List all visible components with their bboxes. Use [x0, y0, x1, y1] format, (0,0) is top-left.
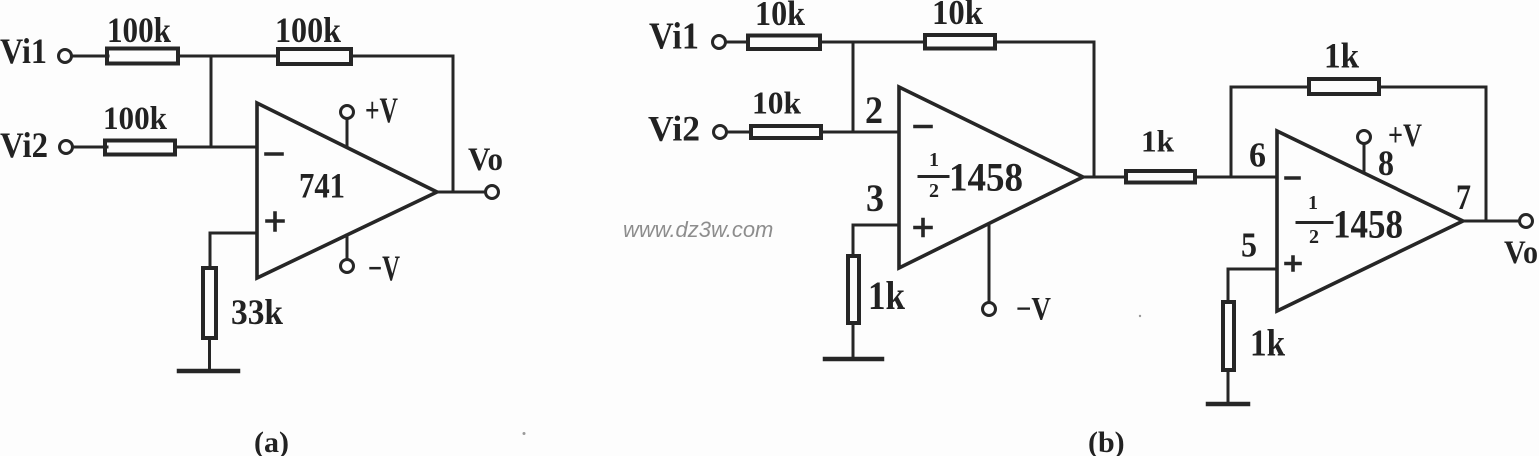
ground (b1) — [825, 357, 882, 362]
resistor R10 1k body — [1309, 79, 1379, 94]
ground (a) — [179, 369, 238, 374]
svg-text:1k: 1k — [1141, 124, 1175, 159]
wire R1 to node A — [180, 55, 278, 58]
terminal Vi1 (a) — [59, 50, 72, 63]
svg-text:1k: 1k — [1250, 323, 1286, 365]
svg-text:2: 2 — [865, 89, 883, 132]
wire node A down to inverting input — [210, 56, 213, 147]
resistor R8 1k body — [848, 256, 859, 323]
wire R8 to ground — [852, 325, 855, 359]
wire Vi1 to R1 — [72, 55, 108, 58]
svg-text:5: 5 — [1241, 226, 1257, 265]
wire U2A output to R9 — [1083, 176, 1126, 179]
wire Vi1 to R5 — [726, 41, 748, 44]
svg-text:1k: 1k — [1324, 36, 1359, 76]
wire Vi2 to R7 — [727, 131, 751, 134]
wire R3 to op-amp inverting input — [175, 146, 257, 149]
svg-text:741: 741 — [299, 166, 345, 206]
U2B non-inverting plus sign — [1286, 257, 1300, 270]
svg-text:Vi1: Vi1 — [649, 16, 699, 58]
svg-text:8: 8 — [1378, 143, 1394, 183]
U2B inverting minus sign — [1286, 176, 1299, 180]
wire Vi2 to R3 — [73, 146, 107, 149]
svg-text:10k: 10k — [932, 0, 983, 32]
op-amp U2B 1458 triangle — [1277, 131, 1463, 311]
terminal -V (b) — [983, 303, 996, 316]
svg-text:Vi2: Vi2 — [0, 125, 48, 165]
terminal +V (a) — [341, 106, 354, 119]
svg-text:100k: 100k — [275, 10, 341, 50]
resistor R7 10k body — [751, 126, 821, 138]
svg-text:(a): (a) — [254, 426, 289, 456]
wire +V stub (b) — [1363, 144, 1366, 173]
op-amp U1 741 triangle — [257, 103, 437, 278]
svg-text:100k: 100k — [103, 101, 168, 137]
svg-text:Vo: Vo — [1504, 235, 1538, 271]
wire -V stub (a) — [346, 235, 349, 259]
terminal +V (b) — [1358, 131, 1371, 144]
U2A fraction bar — [919, 175, 948, 178]
resistor R11 1k body — [1223, 302, 1234, 370]
wire feedback top left — [1231, 86, 1309, 89]
svg-text:(b): (b) — [1088, 426, 1125, 456]
svg-text:3: 3 — [866, 177, 884, 220]
U1 inverting input minus sign — [266, 152, 282, 156]
wire pin3 to R8 — [853, 225, 899, 256]
terminal Vo (a) — [486, 186, 499, 199]
terminal Vi2 (a) — [60, 141, 73, 154]
wire non-inverting input to R4 — [210, 233, 257, 268]
svg-text:33k: 33k — [231, 292, 283, 332]
svg-text:Vo: Vo — [468, 142, 503, 178]
svg-text:2: 2 — [1309, 226, 1319, 248]
resistor R9 1k body — [1126, 171, 1195, 183]
svg-text:Vi2: Vi2 — [648, 109, 700, 149]
svg-text:1458: 1458 — [1333, 202, 1403, 247]
wire -V stub (b) — [988, 224, 991, 302]
svg-text:Vi1: Vi1 — [0, 31, 47, 71]
svg-text:−V: −V — [1016, 292, 1051, 328]
wire pin5 to R11 — [1228, 269, 1277, 302]
wire pin6 feedback riser — [1230, 87, 1233, 177]
svg-text:10k: 10k — [752, 85, 801, 121]
svg-text:100k: 100k — [107, 10, 171, 50]
resistor R4 33k body — [203, 268, 216, 338]
wire R6 to output drop — [997, 42, 1094, 177]
U2A inverting minus sign — [915, 125, 931, 129]
wire node junction down to pin2 — [852, 42, 855, 132]
op-amp U2A 1458 triangle — [899, 87, 1083, 268]
svg-text:1: 1 — [929, 149, 939, 171]
svg-text:+V: +V — [365, 90, 398, 130]
resistor R3 100k body — [105, 141, 175, 155]
wire U2B output — [1463, 220, 1519, 223]
resistor R6 10k body — [925, 35, 995, 49]
svg-text:1: 1 — [1308, 192, 1318, 214]
wire feedback top right to output — [1381, 87, 1486, 221]
wire U1 output — [437, 191, 485, 194]
svg-text:6: 6 — [1249, 136, 1266, 175]
wire R2 to feedback corner — [353, 56, 453, 192]
terminal Vo (b) — [1520, 215, 1533, 228]
wire +V stub (a) — [346, 119, 349, 147]
U2A non-inverting plus sign — [915, 220, 931, 236]
svg-text:2: 2 — [929, 180, 939, 202]
U1 non-inverting input plus sign — [267, 213, 283, 230]
svg-text:1458: 1458 — [949, 155, 1023, 200]
wire R4 to ground — [208, 340, 211, 371]
U2B fraction bar — [1297, 221, 1332, 224]
terminal Vi1 (b) — [713, 36, 726, 49]
wire R11 to ground — [1227, 372, 1230, 404]
wire R5 to node 2 junction — [822, 41, 925, 44]
wire R7 to pin 2 — [823, 131, 899, 134]
svg-text:www.dz3w.com: www.dz3w.com — [623, 217, 773, 242]
resistor R5 10k body — [748, 36, 820, 50]
ground (b2) — [1208, 402, 1248, 407]
svg-text:7: 7 — [1456, 177, 1471, 217]
terminal Vi2 (b) — [714, 126, 727, 139]
terminal -V (a) — [341, 260, 354, 273]
wire R9 to pin 6 — [1195, 176, 1277, 179]
svg-text:−V: −V — [368, 248, 400, 288]
resistor R2 100k body — [278, 49, 351, 64]
svg-text:10k: 10k — [755, 0, 805, 33]
svg-text:1k: 1k — [868, 273, 906, 318]
resistor R1 100k body — [107, 49, 178, 64]
